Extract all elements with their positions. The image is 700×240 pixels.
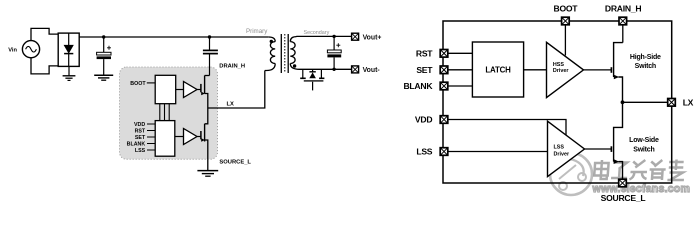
- svg-text:SOURCE_L: SOURCE_L: [219, 159, 251, 165]
- watermark text dian-zi-fa-shao-you (faux glyph strokes): [594, 160, 685, 181]
- svg-text:Switch: Switch: [635, 63, 656, 70]
- wire RST to latch: [449, 52, 473, 54]
- ground below SOURCE_L (left): [197, 171, 218, 177]
- wire top rail: [79, 36, 269, 38]
- svg-text:SET: SET: [416, 65, 433, 75]
- capacitor C1 (bulk, polarized): [97, 37, 111, 75]
- driver buffer upper: [184, 82, 198, 98]
- terminal BOOT: [562, 17, 570, 25]
- terminal VDD: [440, 116, 448, 124]
- node junction cap C1: [102, 35, 105, 38]
- latch U2: [472, 42, 523, 97]
- svg-text:LSS: LSS: [416, 147, 432, 157]
- node junction cap C3 top: [332, 35, 335, 38]
- wire LSS driver to gate: [585, 148, 612, 150]
- op-amp LSS driver: [548, 121, 585, 176]
- svg-text:DRAIN_H: DRAIN_H: [219, 64, 245, 70]
- svg-text:RST: RST: [135, 129, 146, 135]
- svg-text:HSS: HSS: [553, 62, 564, 68]
- svg-text:LX: LX: [683, 98, 694, 108]
- control box upper U1a: [155, 75, 176, 103]
- label Vout-: [363, 67, 381, 74]
- label Vin: [8, 47, 17, 53]
- label SOURCE_L (left): [219, 159, 251, 165]
- label DRAIN_H (right): [605, 3, 641, 13]
- terminal RST: [440, 50, 448, 58]
- wire LX to terminal: [623, 101, 668, 103]
- svg-text:RST: RST: [416, 49, 433, 59]
- label Low-Side Switch: [629, 137, 659, 154]
- terminal BLANK: [440, 82, 448, 90]
- node junction cap C2: [208, 35, 211, 38]
- capacitor C3 output: [327, 36, 341, 69]
- label SET (right): [416, 65, 433, 75]
- transistor high-side switch: [611, 43, 622, 103]
- transistor Q2 low-side (left block): [197, 108, 208, 171]
- svg-text:BOOT: BOOT: [553, 3, 578, 13]
- wire SET to latch: [449, 69, 473, 71]
- svg-text:Driver: Driver: [554, 151, 570, 157]
- svg-text:LATCH: LATCH: [485, 66, 511, 75]
- label DRAIN_H: [219, 64, 245, 70]
- label BOOT (right): [553, 3, 578, 13]
- wire upper box to driver: [176, 89, 184, 91]
- wire DRAIN_H lead down: [622, 26, 624, 43]
- label LX (right): [683, 98, 694, 108]
- label LSS: [135, 148, 146, 154]
- transistor Q1 high-side (left block): [197, 76, 210, 109]
- ground below C1: [94, 75, 113, 80]
- rectifier box: [58, 33, 79, 66]
- svg-text:LSS: LSS: [554, 145, 565, 151]
- label Vout+: [363, 35, 382, 42]
- terminal DRAIN_H: [619, 17, 627, 25]
- ground below rectifier: [63, 66, 76, 80]
- svg-text:High-Side: High-Side: [630, 54, 661, 61]
- node LX junction: [621, 100, 625, 104]
- wire Vin top to rectifier: [31, 28, 58, 40]
- svg-text:Vout+: Vout+: [363, 35, 382, 42]
- label VDD: [134, 122, 145, 128]
- wire input leads lower box: [147, 124, 155, 150]
- terminal SET: [440, 66, 448, 74]
- svg-text:Vout-: Vout-: [363, 67, 381, 74]
- watermark logo circle: [550, 153, 592, 195]
- transformer core: [281, 34, 288, 73]
- svg-text:Low-Side: Low-Side: [629, 137, 659, 144]
- svg-text:Secondary: Secondary: [304, 30, 330, 36]
- svg-text:Primary: Primary: [246, 28, 268, 35]
- transformer primary winding: [265, 37, 275, 71]
- wire VDD to LSS driver: [449, 120, 567, 136]
- svg-text:BLANK: BLANK: [127, 142, 146, 148]
- label BLANK: [127, 142, 146, 148]
- DPA-Switch gray block: [120, 67, 218, 159]
- label RST: [135, 129, 146, 135]
- label LSS (right): [416, 147, 432, 157]
- node junction cap C3 bottom: [332, 68, 335, 71]
- svg-text:LX: LX: [227, 102, 235, 108]
- svg-text:DRAIN_H: DRAIN_H: [605, 3, 641, 13]
- phase dot primary: [270, 40, 273, 43]
- wire LX to transformer: [208, 71, 265, 109]
- bus wires between boxes: [160, 104, 169, 121]
- label BLANK (right): [403, 81, 433, 91]
- terminal LX: [668, 99, 676, 107]
- watermark url www.elecfans.com: [592, 183, 691, 195]
- AC source Vin: [22, 41, 39, 58]
- svg-text:VDD: VDD: [415, 115, 432, 125]
- svg-text:LSS: LSS: [135, 148, 146, 154]
- svg-text:BOOT: BOOT: [130, 81, 146, 87]
- label Secondary: [304, 30, 330, 36]
- wire BOOT lead: [147, 82, 155, 84]
- svg-text:Vin: Vin: [8, 47, 17, 53]
- wire BOOT lead down: [564, 26, 566, 56]
- label SOURCE_L (right): [601, 193, 646, 203]
- wire LSS to driver: [449, 151, 548, 153]
- svg-text:BLANK: BLANK: [403, 81, 433, 91]
- wire secondary bottom rail: [300, 68, 352, 70]
- label RST (right): [416, 49, 433, 59]
- label Primary: [246, 28, 268, 35]
- terminal LSS: [440, 148, 448, 156]
- wire box to lower driver: [175, 136, 184, 138]
- wire Vin bottom to rectifier: [31, 58, 58, 74]
- transistor Q3 sync rectifier: [300, 69, 324, 90]
- label BOOT: [130, 81, 146, 87]
- svg-text:Driver: Driver: [553, 68, 569, 74]
- control box lower U1b: [155, 121, 175, 157]
- driver buffer lower: [184, 129, 198, 145]
- wire secondary top rail: [296, 35, 351, 37]
- capacitor C2 (drain clamp): [203, 37, 218, 76]
- wire HSS driver to gate: [584, 69, 612, 71]
- svg-text:SOURCE_L: SOURCE_L: [601, 193, 646, 203]
- IC boundary box: [443, 21, 672, 183]
- svg-text:SET: SET: [135, 135, 146, 141]
- terminal Vout+: [352, 33, 359, 40]
- wire latch to HSS driver: [524, 69, 547, 71]
- wire BLANK to latch: [449, 85, 473, 87]
- label LX (left): [227, 102, 235, 108]
- transistor low-side switch: [611, 102, 622, 178]
- phase dot secondary: [293, 64, 296, 67]
- svg-text:VDD: VDD: [134, 122, 145, 128]
- transformer secondary winding: [290, 37, 299, 70]
- terminal SOURCE_L: [619, 179, 627, 187]
- label High-Side Switch: [630, 54, 661, 70]
- label VDD (right): [415, 115, 432, 125]
- terminal Vout-: [352, 66, 359, 73]
- diode D1 inside rectifier: [64, 33, 73, 66]
- label SET: [135, 135, 146, 141]
- op-amp HSS driver: [547, 42, 584, 97]
- svg-text:Switch: Switch: [633, 147, 654, 154]
